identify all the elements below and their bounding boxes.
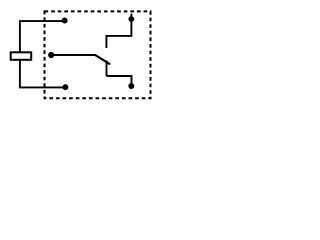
coil L1 (rectangle symbol) [11,52,32,60]
relay enclosure K1 (dashed outline box) [45,11,151,98]
wire NC to terminal (step right then up to top-right terminal) [106,14,131,36]
node terminal A2 (coil bottom terminal dot) [62,84,68,90]
wire coil bottom lead (down from coil, right to terminal) [20,60,66,88]
contact NC stub (upper fixed contact) [105,35,107,48]
contact NO stub (lower fixed contact) [106,61,108,77]
wire NO to terminal (right then down to bottom-right terminal) [107,76,132,86]
node terminal COM (common pole terminal dot) [48,52,54,58]
node terminal NO (bottom-right terminal dot) [128,83,134,89]
node terminal NC (top-right terminal dot) [128,16,134,22]
wire coil top lead (up from coil, right to terminal) [20,21,65,52]
wire pole (from common terminal to switch pivot) [51,54,95,56]
node terminal A1 (coil top terminal dot) [62,18,68,24]
switch lever SW1 (movable armature) [95,55,109,64]
